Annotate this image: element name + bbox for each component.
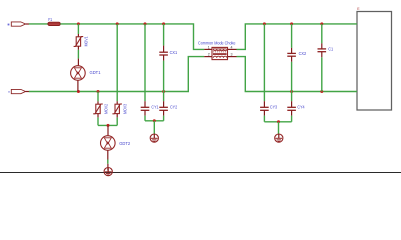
wire: CX1 down to bottom rail xyxy=(163,61,165,92)
wire: vertical branch x163.6 above CX1 xyxy=(163,24,165,46)
svg-text:C1: C1 xyxy=(328,47,333,52)
svg-text:CY1: CY1 xyxy=(151,104,159,109)
node: CY3/CY4 join xyxy=(277,120,280,123)
wire: vertical branch x117 to MOV3 (crosses bottom rail) xyxy=(116,24,118,101)
wire: MOV1 branch from top rail xyxy=(77,24,79,34)
svg-text:4: 4 xyxy=(231,45,233,49)
svg-text:CY2: CY2 xyxy=(170,104,178,109)
capacitor CY3 xyxy=(260,101,277,122)
ground: earth under GDT2 xyxy=(104,164,112,176)
svg-text:GDT1: GDT1 xyxy=(90,70,101,75)
wire: MOV2/MOV3 join xyxy=(98,124,117,126)
node: bottom rail junction MOV2 xyxy=(97,90,100,93)
fuse F1 xyxy=(48,17,60,26)
svg-text:GDT2: GDT2 xyxy=(119,141,130,146)
wire: bottom rail port2 to choke drop xyxy=(29,57,204,92)
svg-text:MOV2: MOV2 xyxy=(103,104,108,114)
svg-text:F1: F1 xyxy=(48,17,52,22)
node: right top rail junction CY3 xyxy=(263,22,266,25)
capacitor CX2 xyxy=(287,48,306,62)
capacitor CX1 xyxy=(159,46,177,61)
wire: vertical branch x264 to CY3 (crosses bottom rail) xyxy=(263,24,265,101)
node: bottom rail junction CX1/CY2 xyxy=(162,90,165,93)
capacitor CY1 xyxy=(141,101,159,121)
wire: CY join down to earth xyxy=(153,121,155,134)
wire: GDT2 to earth xyxy=(107,160,109,164)
wire: port1 to fuse xyxy=(29,23,48,25)
svg-text:MOV1: MOV1 xyxy=(84,36,89,46)
wire: CY2 branch below bottom rail xyxy=(163,92,165,102)
port P2 (neutral input) xyxy=(8,89,29,93)
svg-text:CY4: CY4 xyxy=(297,104,305,109)
wire: CX2 down to bottom rail and CY4 xyxy=(291,62,293,101)
varistor MOV1 xyxy=(74,34,89,50)
capacitor CY4 xyxy=(287,101,305,122)
node: top rail junction x117 xyxy=(116,22,119,25)
node: CY join xyxy=(153,119,156,122)
svg-text:CY3: CY3 xyxy=(270,104,278,109)
svg-text:CX1: CX1 xyxy=(170,50,178,55)
gas discharge tube GDT1 xyxy=(71,59,101,92)
ground: earth under CY3/CY4 xyxy=(275,134,283,142)
gas discharge tube GDT2 xyxy=(101,125,131,159)
svg-text:E: E xyxy=(357,7,360,11)
common mode choke L1 xyxy=(198,40,237,59)
wire: C1 branch from top rail xyxy=(321,24,323,44)
sheet border bottom line xyxy=(0,172,401,174)
wire: CY1/CY2 join xyxy=(145,120,164,122)
node: top rail junction x163.6 xyxy=(162,22,165,25)
wire: vertical branch x145 to CY1 (crosses bottom rail) xyxy=(144,24,146,101)
capacitor C1 xyxy=(318,43,334,57)
svg-text:MOV3: MOV3 xyxy=(123,104,128,114)
ground: earth under CY1/CY2 xyxy=(150,134,158,142)
svg-text:CX2: CX2 xyxy=(299,51,307,56)
node: right bottom rail junction CX2/CY4 xyxy=(290,90,293,93)
wire: top rail fuse to choke corner xyxy=(60,24,204,50)
wire: CX2 branch from top rail xyxy=(291,24,293,48)
node: right bottom rail junction C1 xyxy=(320,90,323,93)
svg-text:1: 1 xyxy=(208,45,210,49)
wire: choke pin3 down to right bottom rail xyxy=(237,57,358,92)
wire: MOV1 to GDT1 xyxy=(77,50,79,59)
wire: C1 down to bottom rail xyxy=(321,57,323,91)
wire: choke pin4 up to right top rail xyxy=(237,24,358,50)
wire: join down to earth xyxy=(278,122,280,134)
node: right top rail junction CX2 xyxy=(290,22,293,25)
connector box E1 xyxy=(357,7,392,110)
node: MOV join to GDT2 xyxy=(107,124,110,127)
node: right top rail junction C1 xyxy=(320,22,323,25)
wire: CY3/CY4 join xyxy=(264,121,291,123)
node: top rail junction at MOV1 xyxy=(77,22,80,25)
port P1 (line input) xyxy=(8,22,29,26)
capacitor CY2 xyxy=(159,101,177,121)
node: bottom rail junction GDT1 xyxy=(77,90,80,93)
node: top rail junction x145 xyxy=(144,22,147,25)
varistor MOV3 xyxy=(112,101,127,125)
varistor MOV2 xyxy=(93,92,108,126)
